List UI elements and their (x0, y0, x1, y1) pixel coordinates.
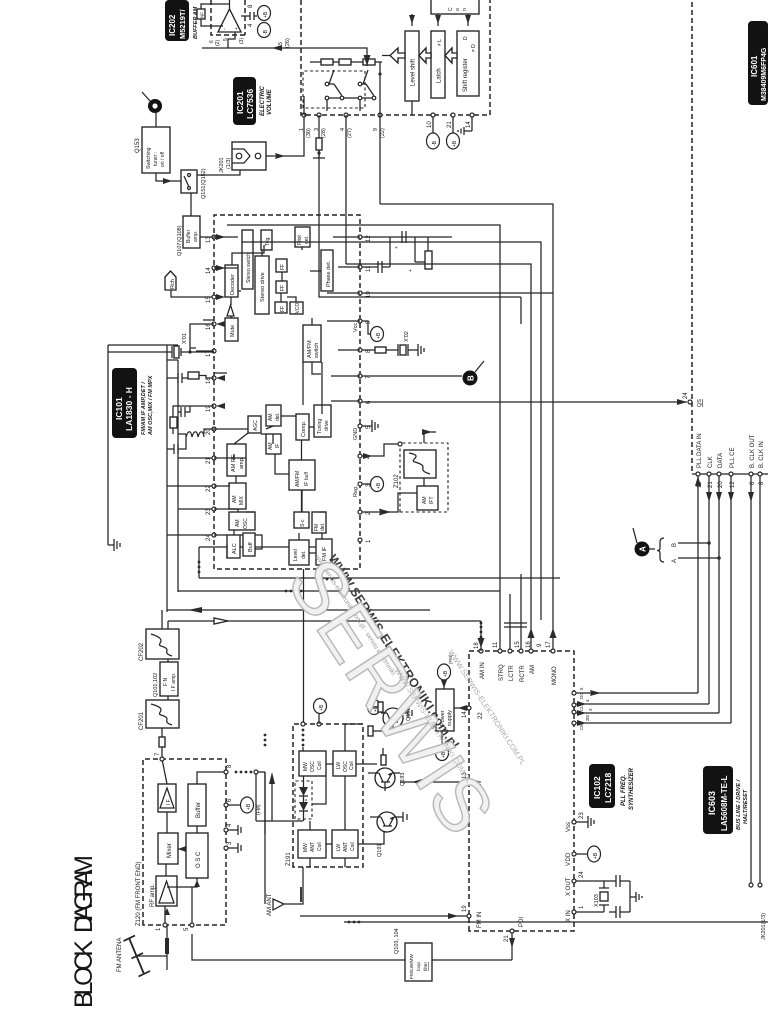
svg-text:Coil: Coil (317, 761, 323, 770)
svg-text:M38409M6FP4G: M38409M6FP4G (761, 47, 768, 101)
arrow down on DO line (590, 690, 601, 696)
pin Vss (572, 820, 576, 824)
Z120 pin 4 (224, 828, 228, 832)
IC202 dashed box (211, 0, 245, 35)
svg-text:14: 14 (206, 267, 212, 274)
volume resistor ladder (310, 59, 382, 65)
cap at pin19 (178, 406, 190, 417)
svg-text:AM/FM: AM/FM (295, 471, 301, 487)
svg-text:S-c: S-c (300, 519, 306, 527)
Cont block (431, 0, 479, 14)
svg-text:1: 1 (366, 539, 372, 543)
crystal X103 (576, 881, 609, 912)
block FF3 (275, 302, 287, 313)
svg-text:AM/FM: AM/FM (307, 340, 313, 358)
svg-text:D: D (463, 36, 469, 40)
svg-text:PLL CE: PLL CE (730, 448, 736, 468)
svg-text:5: 5 (579, 687, 584, 690)
svg-text:1: 1 (156, 927, 162, 931)
svg-text:IF buff: IF buff (304, 471, 310, 486)
block Stereo switch (242, 230, 253, 289)
svg-text:21: 21 (447, 121, 453, 128)
svg-text:4: 4 (585, 699, 590, 702)
block FF1 (276, 259, 287, 272)
svg-text:FF: FF (280, 306, 286, 312)
CF201 ceramic filter (139, 700, 179, 730)
svg-text:Coil: Coil (349, 761, 355, 770)
svg-text:DO: DO (579, 692, 584, 699)
resistor at pin19 (170, 417, 177, 428)
svg-text:I F: I F (166, 799, 172, 805)
svg-text:CLK: CLK (708, 456, 714, 468)
AM IN wire (480, 621, 482, 651)
svg-text:5: 5 (184, 927, 190, 931)
pin 14 from power supply (467, 706, 471, 710)
Z120 pin 1 (163, 923, 167, 927)
wire IC202 to IC201 ladder (202, 32, 367, 66)
svg-text:+B: +B (263, 11, 269, 18)
+B below pin 3 (362, 483, 371, 485)
svg-text:IC601: IC601 (750, 55, 759, 77)
svg-text:B: B (467, 375, 476, 381)
svg-text:FM/LW/MW: FM/LW/MW (409, 954, 415, 979)
+B (FM) supply (228, 797, 262, 815)
svg-text:o: o (455, 8, 461, 11)
svg-text:(26): (26) (285, 38, 291, 48)
svg-text:Stereo switch: Stereo switch (246, 253, 252, 283)
svg-text:IF: IF (275, 444, 281, 448)
IC102 bottom pins DO CL DI CE (572, 687, 593, 730)
IC101 label (112, 368, 154, 438)
caps on LCTR RCTR lines (504, 623, 516, 627)
svg-text:A: A (672, 559, 678, 563)
svg-text:LCTR: LCTR (509, 665, 515, 681)
block AM MIX (229, 483, 246, 509)
svg-text:I F amp.: I F amp. (171, 673, 177, 691)
block AM/FM IF buff (289, 460, 315, 490)
svg-text:LA1830 - H: LA1830 - H (124, 387, 134, 431)
svg-text:+: + (394, 246, 400, 249)
long output line to page edge (344, 921, 768, 923)
svg-text:RCTR: RCTR (520, 665, 526, 682)
svg-text:AM: AM (422, 497, 428, 505)
IF amp (158, 784, 176, 812)
resistor on pin3 line (316, 138, 322, 150)
Z120 pin 3 (224, 846, 228, 850)
svg-text:IC201: IC201 (235, 91, 245, 114)
svg-text:A: A (639, 546, 648, 552)
Z120 internal wires (162, 759, 226, 925)
svg-text:14: 14 (466, 121, 472, 128)
svg-text:Pilot: Pilot (297, 235, 303, 245)
svg-text:22: 22 (478, 712, 484, 719)
block Tuning drive (314, 405, 331, 437)
svg-text:GND: GND (353, 428, 359, 440)
svg-text:Coil: Coil (317, 842, 323, 851)
svg-text:Vss: Vss (566, 822, 572, 832)
band switch control line (302, 440, 304, 722)
svg-text:tuner :: tuner : (153, 152, 159, 166)
beads on osc line (302, 744, 305, 747)
svg-text:(1/3): (1/3) (226, 158, 232, 169)
bus risers to IC102 (574, 693, 731, 723)
B page connector (463, 361, 485, 386)
svg-text:X'02: X'02 (404, 331, 410, 342)
svg-text:DI: DI (585, 715, 590, 720)
svg-text:CF201: CF201 (139, 711, 145, 730)
svg-text:VOLUME: VOLUME (267, 88, 273, 115)
svg-text:LC7218: LC7218 (603, 772, 613, 803)
svg-text:Phase det.: Phase det. (326, 260, 332, 287)
Q106 power supply (430, 689, 454, 731)
svg-text:(30): (30) (306, 128, 312, 138)
PLL DATA IN bus wire (697, 476, 699, 693)
IC601 label (748, 21, 768, 105)
wire pin7 to B (362, 375, 462, 377)
loop filter Q103 Q104 (394, 928, 432, 981)
bus rails to IC101 pins 21-24 (167, 458, 212, 535)
ground symbol on rail (108, 539, 120, 551)
svg-text:8: 8 (227, 764, 233, 768)
svg-text:FF: FF (280, 285, 286, 291)
svg-text:Buff: Buff (248, 542, 254, 552)
CLK bus wire (708, 476, 710, 704)
watermark small lines (393, 636, 528, 796)
IC603 label (703, 766, 749, 834)
+B FM supply to Q106 (438, 664, 451, 680)
block Phase det (321, 250, 333, 291)
JK201 jack (219, 142, 266, 173)
block FM IF (316, 539, 332, 565)
resistor and ground below pin 8 (362, 349, 375, 351)
svg-text:V DD: V DD (566, 852, 572, 866)
svg-text:STRQ: STRQ (499, 664, 505, 681)
svg-text:BUS LINE / DRIVE /: BUS LINE / DRIVE / (736, 778, 742, 830)
svg-text:9: 9 (537, 643, 543, 647)
svg-text:+: + (234, 27, 240, 30)
IC102 right edge pins (474, 641, 558, 685)
Z120 pin 8 (224, 770, 228, 774)
block AM det (266, 405, 281, 426)
PDI to loop filter wire (432, 959, 512, 961)
beads on wires (198, 571, 201, 574)
svg-text:B: B (672, 543, 678, 547)
IC601 pin edge solid (692, 473, 768, 475)
svg-text:ANT: ANT (310, 842, 316, 852)
control staircase wires to IC201 (227, 225, 500, 651)
svg-text:24: 24 (683, 392, 689, 399)
svg-text:3: 3 (588, 708, 593, 711)
B.CLK OUT bus wire (750, 476, 752, 885)
IC202 label (165, 0, 199, 41)
wire JK201 to IC201 pin 1 (266, 115, 304, 156)
svg-text:-B: -B (263, 29, 269, 35)
svg-text:AM: AM (232, 496, 238, 504)
resistor at pin18 (188, 372, 199, 379)
svg-text:LW: LW (336, 762, 342, 769)
svg-text:Buffer: Buffer (186, 229, 192, 243)
Q107 Q108 buffer amp (177, 216, 200, 256)
svg-text:Z191: Z191 (286, 852, 292, 866)
svg-text:MIX: MIX (239, 495, 245, 505)
svg-text:+B: +B (593, 852, 599, 859)
svg-text:(22): (22) (380, 128, 386, 138)
cap at pin20 (167, 434, 186, 454)
wire buffer to Q151 (190, 193, 192, 216)
svg-text:(28): (28) (321, 128, 327, 138)
+B node top (314, 699, 327, 714)
svg-text:4: 4 (227, 823, 233, 827)
svg-text:8: 8 (248, 4, 254, 8)
svg-text:AM: AM (235, 520, 241, 528)
svg-text:MW: MW (303, 762, 309, 771)
beads on AM IN line (480, 636, 483, 639)
svg-text:1: 1 (299, 128, 305, 131)
svg-text:ELECTRIC: ELECTRIC (260, 85, 266, 116)
FM IF feed line (199, 546, 316, 548)
svg-text:24: 24 (579, 871, 585, 878)
svg-text:7: 7 (155, 752, 161, 756)
svg-text:Comp.: Comp. (301, 420, 307, 437)
svg-text:16: 16 (526, 641, 532, 648)
transistor Q193 (356, 748, 406, 791)
svg-text:+B: +B (319, 704, 325, 711)
svg-text:Rch: Rch (170, 279, 176, 289)
block ALC (227, 535, 240, 558)
pin 24 QS (688, 400, 692, 404)
svg-text:JK201(1/3): JK201(1/3) (761, 913, 767, 940)
svg-text:24: 24 (206, 534, 212, 541)
svg-text:CF202: CF202 (139, 642, 145, 661)
Z120 FM front end box (143, 759, 226, 925)
svg-text:Level: Level (293, 549, 299, 561)
IC101 internal wiring (227, 362, 326, 558)
block AGC (248, 416, 261, 433)
RF amp (150, 876, 177, 907)
svg-text:O S C: O S C (196, 851, 202, 868)
pin arrows into IC101 (216, 234, 225, 409)
PLL CE bus wire (730, 476, 732, 723)
CF202 ceramic filter (139, 629, 179, 661)
svg-text:LW: LW (336, 844, 342, 851)
block Stereo drive (255, 256, 269, 314)
svg-text:AM: AM (268, 414, 274, 422)
wire Q153 to Q151 (156, 173, 181, 181)
svg-text:+B: +B (246, 803, 252, 810)
op-amp U202 (218, 9, 241, 32)
wire ladder to trio open arrow (382, 55, 390, 57)
MW ANT coil (298, 830, 326, 858)
block FM det (312, 512, 326, 533)
arrow on FM sample line (269, 772, 275, 784)
svg-text:LC7536: LC7536 (245, 88, 255, 119)
block Mute (225, 318, 238, 341)
svg-text:+: + (408, 269, 414, 272)
pin LW (467, 780, 471, 784)
svg-text:Buffer: Buffer (196, 802, 202, 818)
svg-text:(3): (3) (239, 38, 245, 44)
IC201 dashed box (301, 0, 490, 115)
svg-text:HALT/RESET: HALT/RESET (743, 789, 749, 824)
svg-text:Mute: Mute (230, 325, 236, 337)
tank coil at pin20 (178, 429, 214, 434)
ground stub pin3 line (313, 150, 325, 158)
svg-text:IC101: IC101 (114, 397, 124, 420)
watermark band (313, 544, 462, 756)
svg-text:Z120 (FM FRONT END): Z120 (FM FRONT END) (136, 861, 142, 926)
svg-text:filter: filter (423, 962, 429, 971)
svg-text:Mixer: Mixer (167, 843, 173, 858)
block Latch (431, 31, 445, 98)
svg-text:B. CLK OUT: B. CLK OUT (750, 434, 756, 468)
ladder to pin9 line (379, 62, 381, 204)
svg-text:22: 22 (206, 485, 212, 492)
QS wire from B bus (362, 401, 687, 403)
svg-text:MW: MW (303, 843, 309, 852)
svg-text:11: 11 (366, 265, 372, 272)
C page connector (142, 92, 162, 127)
svg-text:(27): (27) (347, 128, 353, 138)
svg-text:drive: drive (324, 420, 330, 431)
svg-text:Q101,102: Q101,102 (153, 673, 159, 697)
svg-text:Q107(Q108): Q107(Q108) (177, 225, 183, 256)
junction node (254, 770, 258, 774)
svg-text:Reg.: Reg. (353, 485, 359, 497)
IC101 bottom pins 1 to 12 (358, 235, 372, 543)
svg-text:amp.: amp. (193, 231, 199, 242)
IC102 dashed box (469, 651, 574, 931)
svg-text:det.: det. (320, 523, 326, 531)
svg-text:F N: F N (163, 678, 169, 686)
svg-text:switch: switch (314, 343, 320, 358)
svg-text:FM ANTENA: FM ANTENA (117, 938, 123, 972)
+B node lower (368, 700, 381, 715)
Z102 discriminator (362, 429, 448, 516)
arrows Cont to registers (412, 14, 468, 26)
-B supply op-amp (258, 23, 271, 38)
Z191 wires (303, 713, 363, 867)
crystal X'01 (108, 324, 214, 358)
svg-text:≠ L: ≠ L (437, 39, 443, 46)
svg-text:BLOCK: BLOCK (70, 940, 98, 1008)
block AM RF amp (227, 444, 246, 476)
svg-text:IFT: IFT (429, 497, 435, 505)
block S-curve (294, 512, 309, 528)
+B below pin 9 (362, 321, 371, 334)
open arrow shift to latch (419, 48, 431, 63)
svg-text:DATA: DATA (718, 453, 724, 468)
wire Q151 to JK201 (197, 170, 240, 175)
svg-text:MONO: MONO (552, 666, 558, 685)
svg-text:X'01: X'01 (182, 333, 188, 344)
svg-text:ANT: ANT (343, 842, 349, 852)
svg-text:23: 23 (206, 508, 212, 515)
svg-text:5: 5 (278, 42, 284, 45)
block Shift register (457, 31, 479, 96)
svg-text:det.: det. (304, 236, 310, 244)
Z191 edge pins (301, 722, 305, 726)
svg-text:(2): (2) (215, 40, 221, 46)
svg-text:NF: NF (200, 12, 205, 18)
transistor Q192 (367, 702, 412, 736)
svg-text:+B: +B (452, 140, 458, 147)
mixer (158, 833, 178, 864)
inner dashed box (303, 71, 365, 108)
block AM/FM switch (303, 325, 321, 362)
ground pin4 (228, 825, 241, 835)
svg-text:4: 4 (340, 128, 346, 131)
IC101 top pins 24 to 13 (206, 235, 216, 541)
svg-text:Decoder: Decoder (230, 274, 236, 295)
svg-text:LA5608M-TE-L: LA5608M-TE-L (720, 775, 729, 831)
wire to AM band switch diodes (256, 772, 294, 904)
block Level det (289, 540, 309, 565)
block VCO (290, 302, 303, 314)
block Buff (243, 533, 255, 556)
svg-text:11: 11 (493, 641, 499, 648)
svg-text:FM IN: FM IN (477, 912, 483, 928)
cap below pin 11 (362, 231, 452, 273)
svg-text:OSC: OSC (243, 518, 249, 529)
buffer output beads (235, 771, 238, 774)
ground pin3 (228, 843, 241, 853)
FM antenna (117, 925, 167, 977)
resistor on CF201 input (159, 737, 165, 747)
svg-text:Latch: Latch (437, 68, 443, 83)
wire pin13 to buffer (200, 236, 214, 238)
Q101 Q102 FM IF amp (153, 662, 178, 697)
block AM OSC (229, 512, 255, 530)
svg-text:19: 19 (462, 905, 468, 912)
+B supply left of Q106 (436, 746, 449, 761)
svg-text:10: 10 (427, 121, 433, 128)
svg-text:(FM): (FM) (256, 804, 262, 815)
Z120 pin 7 (160, 757, 164, 761)
svg-text:PLL DATA IN: PLL DATA IN (697, 433, 703, 468)
svg-text:17: 17 (546, 641, 552, 648)
cap at pin18 (167, 373, 188, 383)
svg-text:1: 1 (579, 905, 585, 909)
AM signal bus vertical wires (167, 547, 560, 629)
svg-text:Coil: Coil (350, 842, 356, 851)
svg-text:VCO: VCO (295, 303, 301, 314)
svg-text:M5219T/: M5219T/ (178, 8, 187, 39)
block AM IF (266, 434, 281, 454)
pin10 wire (362, 292, 553, 294)
svg-text:AGC: AGC (253, 420, 259, 431)
arrow up on wire (188, 607, 202, 613)
B.CLK IN bus wire (759, 476, 761, 885)
pin1 stub into box (304, 96, 309, 115)
svg-text:Level shift: Level shift (411, 59, 417, 86)
pin17 wire (196, 350, 214, 352)
IC102 label (589, 764, 635, 810)
wire IF amp to CF202 (162, 610, 168, 662)
block Comp (296, 414, 309, 440)
IC201 supply pins (412, 101, 474, 149)
block Level shift (405, 31, 419, 101)
Z120 pin 5 (190, 923, 194, 927)
svg-text:15: 15 (515, 641, 521, 648)
svg-text:FF: FF (280, 264, 286, 270)
svg-text:Q151(Q152): Q151(Q152) (201, 168, 207, 199)
IC601 bus pins (696, 472, 765, 488)
loop filter to VCO line (192, 934, 405, 960)
DATA bus wire (718, 476, 720, 713)
svg-text:IC202: IC202 (168, 14, 177, 36)
svg-text:+B: +B (376, 332, 382, 339)
svg-text:loop: loop (416, 962, 422, 971)
